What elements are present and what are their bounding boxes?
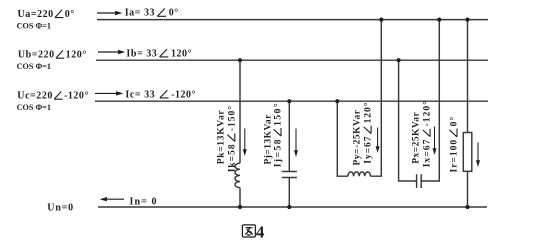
svg-text:Ix=67: Ix=67 — [423, 139, 433, 168]
label Ua source voltage — [18, 9, 75, 20]
svg-text:Un=0: Un=0 — [47, 202, 74, 213]
svg-text:-150°: -150° — [226, 105, 237, 131]
current arrow Ia — [97, 11, 122, 15]
wire branch2 to neutral — [288, 178, 290, 208]
branch4 arrow Ix — [433, 127, 437, 156]
node phaseA-branch3 — [379, 18, 383, 22]
branch3 arrow Iy — [376, 128, 380, 154]
wire branch2 drop from phase C — [288, 101, 290, 171]
svg-text:150°: 150° — [273, 102, 284, 126]
svg-text:Ik=58: Ik=58 — [227, 143, 237, 172]
svg-text:120°: 120° — [363, 102, 374, 124]
current arrow Ib — [98, 50, 125, 54]
svg-text:0°: 0° — [169, 8, 179, 19]
svg-text:-120°: -120° — [422, 100, 433, 126]
svg-text:COS Φ=1: COS Φ=1 — [17, 62, 51, 71]
node phaseB-branch1 — [238, 58, 242, 62]
current arrow In (leftward) — [100, 197, 124, 201]
resistor R (Ir branch) — [463, 133, 472, 172]
wire branch3 right leg to phase A — [370, 20, 381, 177]
svg-text:Px=25KVar: Px=25KVar — [412, 112, 422, 164]
svg-text:Pk=13KVar: Pk=13KVar — [217, 110, 227, 165]
wire branch4 right leg to phase A — [421, 20, 439, 181]
node phaseB-branch4 — [397, 58, 401, 62]
svg-text:COS Φ=1: COS Φ=1 — [17, 103, 51, 112]
branch2 arrow Ij — [294, 129, 298, 158]
svg-text:Uc=220: Uc=220 — [17, 91, 53, 102]
node phaseC-branch3 — [335, 99, 339, 103]
svg-text:Ib= 33: Ib= 33 — [126, 48, 157, 59]
label Px branch4 power — [412, 112, 422, 164]
label Ib value — [126, 48, 192, 59]
wire neutral bus — [98, 206, 487, 208]
wire branch5 drop from phase A — [467, 20, 469, 133]
caption glyph TU (Chinese figure) — [242, 225, 255, 237]
svg-text:Ua=220: Ua=220 — [18, 9, 54, 20]
node phaseA-branch5 — [465, 18, 469, 22]
label Ub source voltage — [18, 50, 87, 61]
wire phase A bus — [97, 19, 488, 21]
svg-text:120°: 120° — [66, 50, 87, 61]
svg-text:0°: 0° — [449, 116, 460, 127]
label Ij branch2 current — [273, 102, 284, 168]
svg-text:Iy=67: Iy=67 — [364, 136, 374, 164]
wire branch1 drop from phase B — [239, 60, 241, 163]
current arrow Ic — [95, 91, 123, 95]
label Pk branch1 power — [217, 110, 227, 165]
svg-text:Pj=13KVar: Pj=13KVar — [264, 114, 274, 165]
svg-text:Ij=58: Ij=58 — [274, 138, 284, 167]
svg-text:In= 0: In= 0 — [130, 197, 158, 208]
label Pj branch2 power — [264, 114, 274, 165]
branch5 arrow Ir — [476, 142, 480, 167]
svg-text:Ir=100: Ir=100 — [450, 139, 460, 173]
label Iy branch3 current — [363, 102, 374, 164]
svg-text:-120°: -120° — [171, 89, 196, 100]
wire branch5 to neutral — [467, 171, 469, 207]
label Uc source voltage — [17, 91, 89, 102]
label Ia value — [125, 8, 179, 19]
label Ik branch1 current — [226, 105, 237, 172]
wire branch1 to neutral — [239, 188, 241, 207]
node phaseA-branch4 — [437, 18, 441, 22]
svg-text:Py=-25KVar: Py=-25KVar — [353, 109, 363, 165]
node phaseC-branch2 — [287, 99, 291, 103]
capacitor Cx (Px=25KVar branch) — [417, 174, 422, 188]
wire phase C bus — [95, 100, 488, 102]
svg-text:Ub=220: Ub=220 — [18, 50, 55, 61]
svg-text:0°: 0° — [65, 9, 75, 20]
svg-text:COS Φ=1: COS Φ=1 — [17, 22, 51, 31]
capacitor Cj (Pj=13KVar branch) — [282, 172, 297, 178]
wire branch4 left leg from phase B — [399, 60, 417, 181]
label Ix branch4 current — [422, 100, 433, 167]
wire branch3 left leg from phase C — [337, 101, 348, 176]
inductor Lk (Pk=13KVar branch) — [235, 163, 240, 187]
svg-text:4: 4 — [256, 222, 265, 241]
svg-text:-120°: -120° — [64, 91, 89, 102]
svg-text:Ia= 33: Ia= 33 — [125, 8, 155, 19]
label Ir branch5 current — [449, 116, 460, 173]
inductor Ly (Py=-25KVar branch) — [348, 172, 370, 176]
svg-text:120°: 120° — [171, 48, 192, 59]
wire phase B bus — [96, 59, 488, 61]
node neutral-branch2 — [287, 205, 291, 209]
branch1 arrow Ik — [243, 129, 247, 157]
label Py branch3 power — [353, 109, 363, 165]
node neutral-branch1 — [238, 205, 242, 209]
node neutral-branch5 — [465, 205, 469, 209]
svg-text:Ic= 33: Ic= 33 — [125, 89, 155, 100]
label Ic value — [125, 89, 196, 100]
